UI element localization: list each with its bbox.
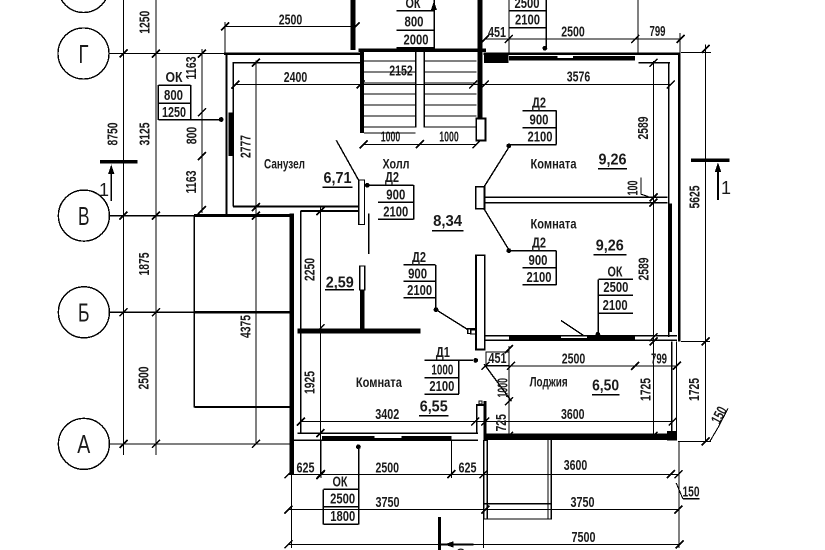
wall top inner left [234, 62, 361, 64]
ticks right and bottom dims [285, 45, 710, 548]
jamb bar sanuzel door [359, 180, 365, 225]
dim line 2400-2152-3576 [235, 84, 670, 86]
dim line 2589-100-2589-1725 vertical inner [653, 61, 655, 436]
svg-text:900: 900 [530, 113, 549, 129]
svg-text:6,50: 6,50 [592, 377, 619, 394]
leader dot room3 door [434, 307, 439, 312]
white backing for 2152 [384, 61, 418, 75]
axis line Г [109, 53, 232, 55]
svg-text:ОК: ОК [333, 474, 348, 490]
door leaf Д1 [484, 364, 511, 401]
svg-text:1: 1 [99, 180, 109, 200]
shelf line for 100 label [641, 177, 650, 197]
svg-text:2100: 2100 [528, 130, 553, 146]
svg-text:725: 725 [493, 414, 510, 432]
dim line 625-2500-625 [289, 473, 679, 475]
dim line 2777-4375 vertical [255, 61, 257, 445]
window top glazing notch [557, 56, 573, 58]
svg-text:2500: 2500 [376, 460, 400, 477]
steps left edge line2 [486, 440, 488, 519]
window top (ОК 2500х2100) glazing [509, 56, 635, 60]
svg-text:900: 900 [386, 187, 405, 203]
door leaf closet (open) [368, 213, 370, 254]
loggia east parapet inner [671, 341, 673, 436]
dim line 1163-800-1163 vertical [201, 49, 203, 213]
boxed label 451 loggia [486, 352, 509, 366]
extension line steps left below [483, 520, 485, 548]
wall stair top outer [359, 48, 487, 51]
section mark 1 left: bar [100, 160, 138, 163]
svg-text:3125: 3125 [137, 123, 154, 146]
svg-text:2000: 2000 [404, 32, 429, 48]
extension line west wall below [291, 475, 293, 548]
svg-text:6,55: 6,55 [420, 398, 448, 415]
svg-text:1875: 1875 [136, 253, 153, 276]
stair left wall [360, 50, 364, 133]
svg-text:Д2: Д2 [385, 170, 399, 186]
svg-text:2500: 2500 [279, 12, 303, 29]
svg-text:Комната: Комната [356, 374, 402, 390]
svg-text:3750: 3750 [376, 494, 400, 511]
svg-text:2100: 2100 [407, 283, 432, 299]
leader dot window bottom [356, 444, 361, 449]
leader dot bedroom2 door [506, 248, 511, 253]
svg-text:Б: Б [78, 298, 90, 328]
table Д2 900/2100 bedroom1 [510, 111, 556, 145]
door leaf bedroom1 [484, 147, 509, 187]
steps tread line [484, 503, 552, 505]
loggia top wall inner face [484, 339, 677, 341]
svg-text:1000: 1000 [439, 128, 459, 145]
svg-text:3750: 3750 [571, 494, 595, 511]
window left (ОК 800х1250) glazing [228, 113, 233, 157]
axis circle Г [58, 28, 109, 79]
svg-text:799: 799 [650, 23, 666, 40]
svg-text:ОК: ОК [166, 70, 183, 86]
svg-text:625: 625 [297, 460, 315, 477]
svg-text:900: 900 [408, 266, 427, 282]
stair left flight bottom [364, 132, 416, 134]
svg-text:Холл: Холл [383, 156, 410, 172]
svg-text:1925: 1925 [302, 371, 319, 394]
svg-text:1163: 1163 [183, 171, 200, 194]
partition bedrooms lower line [484, 202, 668, 204]
porch deck mid edge on axis Б [194, 311, 292, 313]
wall left outer [225, 53, 227, 216]
porch / stair right wall [478, 0, 483, 119]
table ОК 2500/2100 right-mid [598, 279, 633, 334]
axis line Б [109, 311, 194, 313]
ticks on left dim lines [120, 50, 325, 480]
svg-text:Д2: Д2 [532, 236, 546, 252]
wall room3 bottom bottom face [290, 439, 478, 441]
extension line left wall up [224, 22, 226, 53]
loggia west parapet lower segment [484, 401, 487, 441]
wall block between stair and window [484, 52, 509, 63]
steps bottom line [484, 518, 552, 520]
wall left inner [232, 62, 234, 207]
svg-text:ОК: ОК [608, 264, 623, 280]
svg-text:В: В [78, 201, 90, 231]
window bottom (ОК 2500х1800) glazing [322, 436, 452, 440]
svg-text:1163: 1163 [183, 57, 200, 80]
svg-text:Комната: Комната [531, 156, 577, 172]
axis circle top (partial) [58, 0, 109, 13]
wall closet top face [301, 210, 359, 212]
extension line loggia top right [681, 341, 710, 343]
stair divider right line [423, 52, 425, 128]
svg-text:1000: 1000 [431, 363, 453, 379]
porch left edge [193, 216, 195, 408]
svg-text:1725: 1725 [637, 378, 654, 401]
wall corridor east / loggia west upper (outlined) [476, 255, 485, 349]
svg-text:625: 625 [459, 460, 477, 477]
axis line В [109, 215, 194, 217]
svg-text:1800: 1800 [330, 509, 355, 525]
ticks top dims [221, 23, 685, 149]
table ОК 800/2000 top [396, 0, 434, 49]
section mark 1 right: bar [691, 159, 730, 162]
svg-text:2100: 2100 [429, 379, 454, 395]
loggia top wall outer face [484, 335, 677, 337]
svg-text:Комната: Комната [531, 216, 577, 232]
extension line x451 below [450, 441, 452, 478]
svg-text:6,71: 6,71 [324, 170, 352, 187]
axis circle Б [58, 287, 109, 338]
dim line 3402-3600 [301, 421, 673, 423]
window loggia (ОК 2500х2100) glazing [509, 337, 635, 340]
extension line east side below [678, 442, 680, 549]
axis line А [109, 443, 293, 445]
wall west inner face [300, 211, 302, 433]
svg-text:2100: 2100 [527, 270, 552, 286]
table Д2 900/2100 hall [367, 185, 413, 219]
svg-text:3402: 3402 [375, 406, 399, 423]
svg-text:2777: 2777 [237, 135, 254, 158]
svg-text:2: 2 [456, 545, 465, 550]
step wall room3 SE corner vertical [476, 404, 478, 433]
svg-text:Г: Г [79, 39, 89, 69]
dim line 3750-3750 [289, 509, 679, 511]
extension line x638 [637, 0, 639, 53]
extension line right corner up [679, 33, 681, 53]
loggia bottom wall [484, 434, 677, 441]
svg-text:2589: 2589 [635, 117, 652, 140]
dim line 1000-725 vertical [508, 346, 510, 436]
svg-text:2500: 2500 [330, 492, 355, 508]
stair treads right flight [424, 60, 476, 62]
jamb д1 top [471, 330, 476, 334]
svg-text:800: 800 [164, 88, 183, 104]
leader dot Д1 [473, 358, 478, 363]
wall east outer [678, 53, 681, 342]
door leaf sanuzel [336, 140, 359, 180]
svg-text:Д1: Д1 [436, 345, 450, 361]
svg-text:Д2: Д2 [532, 96, 546, 112]
wall stub closet east [360, 290, 365, 334]
svg-text:1000: 1000 [495, 378, 512, 398]
section mark 1 right: arrow [717, 170, 719, 200]
table Д2 900/2100 bedroom2 [510, 251, 556, 285]
step wall room3 SE corner horizontal [476, 404, 484, 406]
white backing 1000 texts [378, 131, 403, 143]
dim line 1250-3125-1875-2500 vertical [155, 0, 157, 455]
svg-text:1: 1 [721, 178, 731, 198]
wall west below В [290, 214, 294, 475]
svg-text:ОК: ОК [406, 0, 421, 12]
svg-text:2500: 2500 [561, 24, 585, 41]
window east (ОК 2500х2100) glazing [668, 204, 671, 333]
wall east inner face [668, 63, 670, 337]
extension line x320 below [320, 441, 322, 478]
table ОК 2500/1800 bottom [323, 449, 358, 524]
svg-text:2500: 2500 [562, 350, 586, 367]
dim line 1000-1000 stairs [364, 143, 477, 145]
section mark 1 left: arrow [110, 172, 112, 201]
svg-text:451: 451 [489, 350, 507, 367]
svg-text:5625: 5625 [687, 186, 704, 209]
svg-text:9,26: 9,26 [599, 151, 627, 168]
window loggia glazing notch [561, 337, 587, 339]
steps right edge line1 [547, 440, 549, 519]
section mark bottom: bar [438, 517, 441, 550]
svg-text:2500: 2500 [136, 367, 153, 390]
jamb bar bedroom doors [476, 187, 485, 209]
svg-text:1000: 1000 [381, 128, 401, 145]
wall room3 bottom top face [298, 432, 478, 434]
svg-text:3600: 3600 [564, 457, 588, 474]
dim line 2500 top-left [225, 26, 356, 28]
svg-text:2250: 2250 [302, 258, 319, 281]
svg-text:2,59: 2,59 [326, 275, 354, 292]
stair treads left flight [364, 60, 416, 62]
wall room3 top [298, 328, 421, 333]
section mark bottom: arrow [441, 543, 474, 545]
extension line top right corner [681, 52, 711, 54]
table Д2 900/2100 room3 [404, 265, 436, 308]
svg-text:4375: 4375 [237, 315, 254, 338]
svg-text:451: 451 [488, 24, 506, 41]
svg-text:3576: 3576 [567, 69, 591, 86]
dim line 7500 [289, 543, 680, 545]
svg-text:1725: 1725 [686, 378, 703, 401]
wall top inner right [639, 62, 671, 64]
leader dot bedroom1 door [506, 144, 511, 149]
wall sanuzel bottom upper face [233, 205, 360, 207]
svg-text:Д2: Д2 [412, 250, 426, 266]
svg-text:Санузел: Санузел [264, 156, 305, 172]
steps left edge line1 [483, 440, 485, 519]
svg-text:2100: 2100 [383, 204, 408, 220]
jamb д1 bottom [479, 401, 482, 404]
leader dot loggia window [596, 332, 601, 337]
svg-text:2152: 2152 [389, 63, 413, 80]
porch bottom edge [194, 406, 289, 408]
jamb bar closet door lower [360, 266, 365, 290]
porch deck top edge on axis В [194, 214, 292, 217]
svg-text:А: А [77, 429, 90, 459]
partition bedrooms upper line [484, 196, 668, 198]
dim line 8750 vertical [123, 0, 125, 455]
svg-text:2100: 2100 [603, 298, 628, 314]
svg-text:2589: 2589 [635, 258, 652, 281]
wall top outer left segment [224, 52, 362, 55]
svg-text:2400: 2400 [284, 69, 308, 86]
extension line x509 [508, 0, 510, 53]
loggia SE corner block [667, 431, 677, 440]
svg-text:3600: 3600 [561, 406, 585, 423]
svg-text:150: 150 [683, 484, 700, 501]
axis circle А [58, 418, 109, 469]
svg-text:Лоджия: Лоджия [530, 373, 568, 389]
table Д1 1000/2100 [424, 360, 473, 394]
window open symbol diagonal [561, 321, 584, 336]
window bottom glazing notch [375, 436, 402, 438]
svg-text:9,26: 9,26 [596, 237, 624, 254]
svg-text:900: 900 [529, 253, 548, 269]
dim line 2250-1925 vertical [319, 207, 321, 475]
svg-text:800: 800 [405, 15, 424, 31]
svg-text:2100: 2100 [515, 13, 540, 29]
svg-text:800: 800 [184, 127, 201, 145]
svg-text:7500: 7500 [572, 529, 596, 546]
stair divider left line [415, 52, 417, 128]
svg-text:2500: 2500 [603, 280, 628, 296]
table 2500/2100 top right [509, 0, 546, 48]
svg-text:100: 100 [625, 181, 642, 196]
svg-text:8750: 8750 [105, 123, 122, 146]
dim line 451-2500-799 top-right [485, 38, 681, 40]
table ОК 800/1250 [158, 85, 221, 120]
svg-text:8,34: 8,34 [433, 213, 462, 230]
door leaf room3 [436, 310, 468, 330]
jamb stair-side bedroom1 door (outlined) [476, 119, 485, 141]
svg-text:2500: 2500 [515, 0, 540, 12]
svg-text:799: 799 [651, 350, 667, 367]
wall top outer right segment [484, 52, 681, 55]
extension line loggia bottom right [678, 440, 711, 442]
loggia east parapet outer [676, 341, 678, 436]
door leaf bedroom2 [484, 209, 509, 251]
porch left upper wall [350, 0, 355, 50]
dim line 5625-1725 vertical outer [705, 45, 707, 442]
dim line 451-2500-799 loggia [485, 365, 676, 367]
steps right edge line2 [550, 440, 552, 519]
svg-text:1250: 1250 [137, 11, 154, 34]
svg-text:1250: 1250 [162, 105, 186, 121]
jamb room3 door [468, 329, 475, 334]
axis circle В [58, 190, 109, 241]
